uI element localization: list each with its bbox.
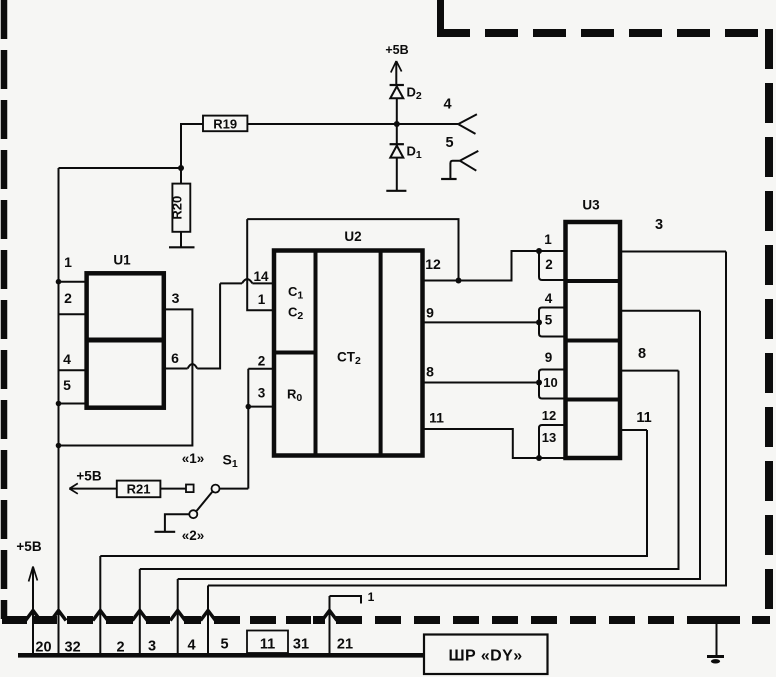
svg-text:C1: C1	[288, 284, 303, 302]
svg-text:3: 3	[655, 217, 663, 233]
svg-text:4: 4	[63, 351, 71, 367]
svg-text:32: 32	[65, 640, 81, 656]
svg-text:+5В: +5В	[16, 539, 41, 554]
svg-text:1: 1	[544, 232, 552, 247]
svg-text:S1: S1	[223, 452, 238, 471]
svg-text:8: 8	[638, 346, 646, 362]
svg-text:5: 5	[63, 377, 71, 393]
svg-text:12: 12	[425, 256, 441, 272]
svg-text:1: 1	[64, 254, 72, 270]
svg-text:2: 2	[545, 257, 553, 272]
svg-text:+5В: +5В	[76, 469, 101, 484]
svg-text:11: 11	[636, 410, 651, 426]
svg-text:31: 31	[293, 637, 309, 653]
svg-text:D1: D1	[407, 144, 422, 162]
svg-text:14: 14	[253, 269, 269, 284]
svg-text:2: 2	[258, 354, 266, 369]
svg-text:U3: U3	[582, 198, 600, 213]
svg-text:2: 2	[116, 640, 124, 656]
svg-text:«2»: «2»	[182, 528, 205, 543]
svg-text:«1»: «1»	[182, 451, 205, 466]
svg-text:3: 3	[172, 290, 180, 306]
svg-text:5: 5	[445, 135, 453, 151]
svg-text:D2: D2	[407, 85, 422, 103]
svg-text:4: 4	[545, 291, 553, 306]
svg-text:20: 20	[35, 640, 51, 656]
svg-text:U2: U2	[344, 229, 361, 244]
svg-text:4: 4	[443, 97, 451, 113]
svg-text:4: 4	[187, 638, 195, 654]
svg-text:1: 1	[258, 292, 266, 307]
svg-text:5: 5	[220, 637, 228, 653]
svg-text:9: 9	[426, 305, 434, 321]
svg-text:2: 2	[64, 290, 72, 306]
svg-text:C2: C2	[288, 305, 303, 323]
svg-text:+5В: +5В	[385, 43, 408, 57]
svg-text:21: 21	[337, 637, 353, 653]
svg-text:13: 13	[542, 430, 556, 445]
svg-text:CT2: CT2	[337, 350, 361, 368]
svg-text:ШР «DY»: ШР «DY»	[448, 648, 522, 665]
svg-text:11: 11	[260, 637, 275, 653]
svg-text:9: 9	[545, 350, 553, 365]
svg-text:R21: R21	[127, 481, 151, 496]
svg-text:3: 3	[258, 386, 266, 401]
svg-text:R0: R0	[287, 387, 302, 405]
svg-text:10: 10	[543, 375, 557, 390]
svg-text:U1: U1	[113, 253, 131, 268]
svg-text:5: 5	[545, 313, 553, 328]
svg-text:12: 12	[542, 408, 556, 423]
svg-text:11: 11	[429, 410, 444, 426]
svg-text:1: 1	[368, 590, 375, 604]
svg-text:R19: R19	[213, 116, 237, 131]
svg-text:R20: R20	[170, 196, 185, 220]
svg-text:6: 6	[171, 350, 179, 366]
svg-text:3: 3	[148, 639, 156, 655]
svg-text:8: 8	[426, 364, 434, 380]
